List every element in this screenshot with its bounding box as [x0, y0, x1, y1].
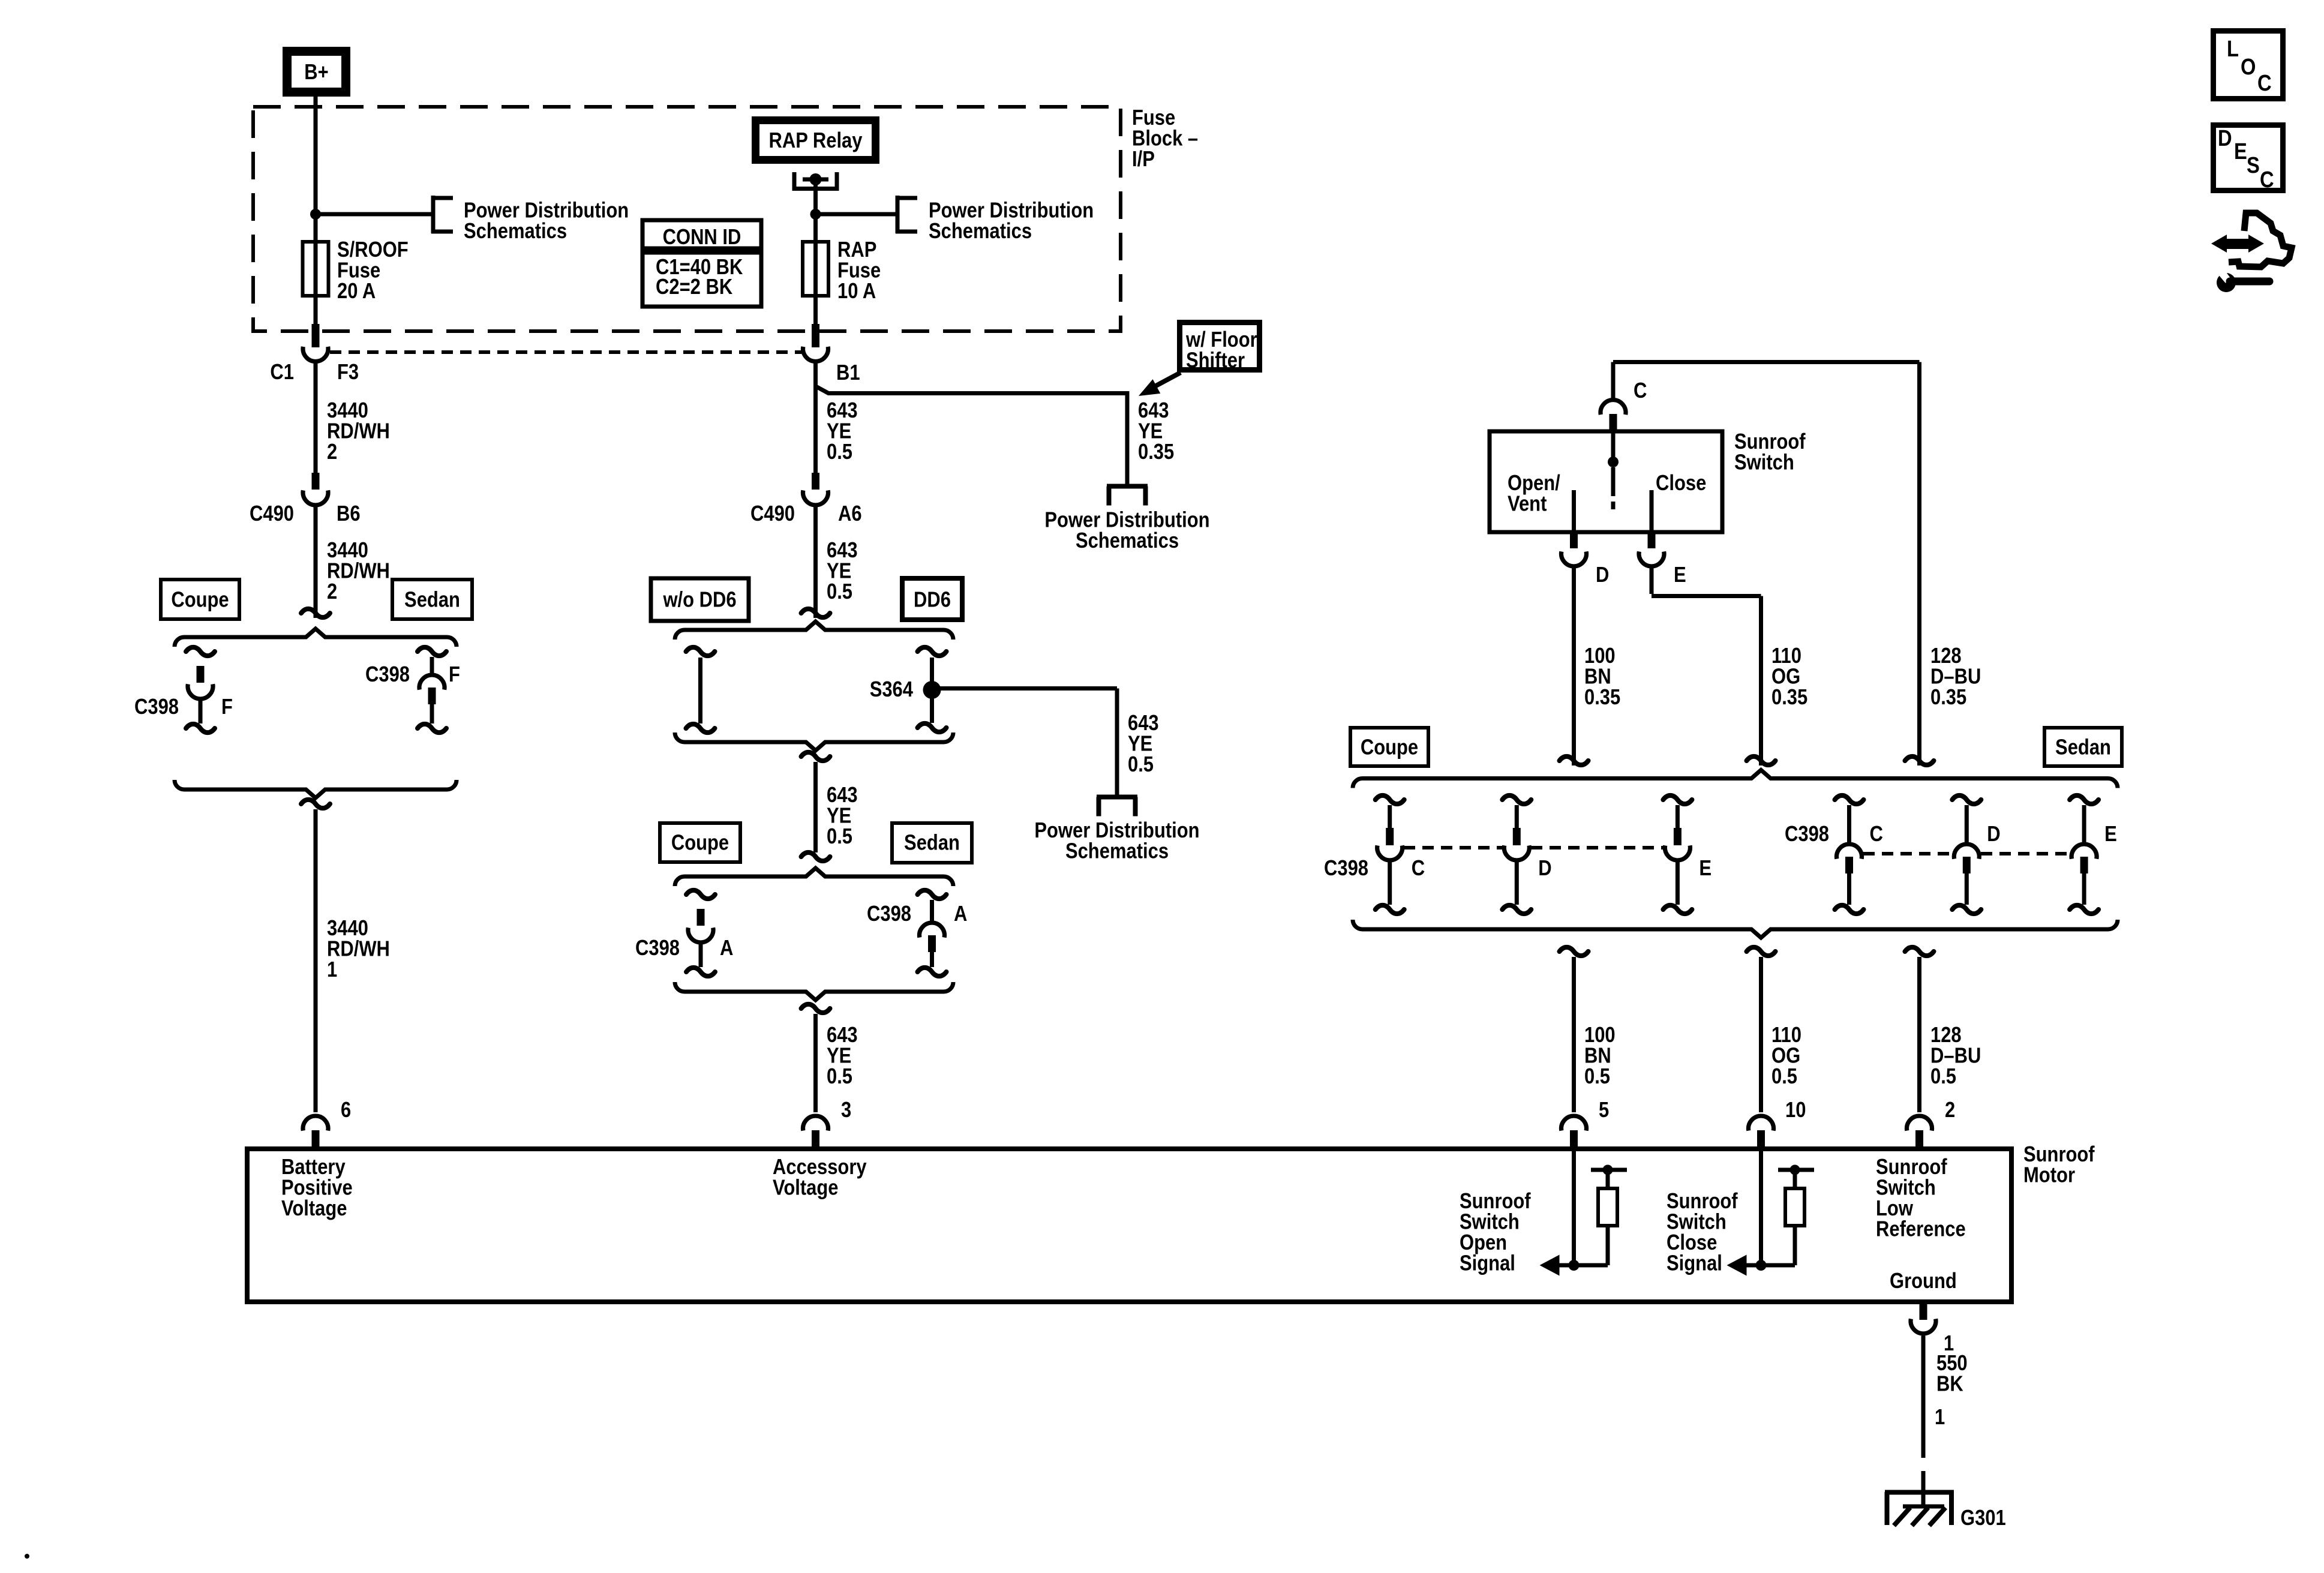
- svg-text:C490: C490: [250, 501, 294, 526]
- wire 643 YE 0.5 to motor pin 3: [813, 1014, 818, 1112]
- svg-text:Motor: Motor: [2023, 1163, 2075, 1187]
- switch pin D: [1570, 530, 1578, 548]
- merge brace coupe/sedan (right): [1353, 920, 2118, 938]
- svg-text:C398: C398: [365, 662, 410, 686]
- svg-text:C: C: [2257, 71, 2272, 96]
- svg-text:3: 3: [841, 1097, 851, 1122]
- icon DESC box: [2214, 125, 2283, 191]
- svg-text:A: A: [720, 935, 733, 960]
- split brace coupe/sedan (left): [175, 629, 457, 647]
- power distribution tap symbol (RAP): [896, 196, 900, 233]
- svg-text:F: F: [449, 662, 460, 686]
- connector C398 pin C (coupe): [1376, 795, 1404, 804]
- option box Sedan (left): [392, 580, 472, 619]
- svg-text:Voltage: Voltage: [773, 1175, 839, 1200]
- svg-text:Ground: Ground: [1890, 1268, 1957, 1293]
- svg-text:F: F: [221, 694, 233, 719]
- svg-text:CONN ID: CONN ID: [663, 224, 741, 249]
- resistor open signal: [1598, 1188, 1617, 1226]
- wire wave before split: [301, 609, 330, 617]
- connector C398 pin C (sedan): [1835, 795, 1864, 804]
- svg-text:1: 1: [1935, 1404, 1945, 1429]
- svg-text:E: E: [1674, 562, 1686, 587]
- svg-text:Schematics: Schematics: [929, 218, 1032, 243]
- svg-text:w/o DD6: w/o DD6: [663, 587, 737, 612]
- wire 128 D-BU 0.5 to motor pin 2: [1917, 957, 1921, 1112]
- dashed link sedan connectors: [1863, 852, 1953, 855]
- merge brace DD6: [675, 733, 953, 751]
- wire tap to power distribution (RAP): [816, 212, 896, 217]
- svg-text:B1: B1: [836, 360, 860, 385]
- svg-text:C: C: [2260, 167, 2274, 193]
- svg-text:Coupe: Coupe: [1361, 735, 1418, 760]
- connector C1 pin F3: [312, 324, 320, 347]
- relay RAP Relay box: [752, 116, 879, 164]
- wire 643 YE 0.5 to coupe/sedan split: [813, 762, 818, 852]
- svg-text:10 A: 10 A: [837, 278, 876, 303]
- node junction RAP feed: [810, 209, 821, 220]
- connector C398 pin D (coupe): [1502, 795, 1531, 804]
- wire branch to floor shifter circuit: [815, 386, 1127, 486]
- wire B+ down to S/ROOF fuse: [314, 97, 318, 324]
- svg-text:L: L: [2227, 37, 2239, 62]
- svg-text:RAP Relay: RAP Relay: [769, 128, 863, 152]
- svg-text:Schematics: Schematics: [1065, 839, 1169, 863]
- svg-text:B+: B+: [304, 59, 328, 84]
- option box Coupe (right): [1350, 728, 1428, 766]
- svg-text:0.5: 0.5: [827, 824, 852, 848]
- motor internal open signal circuit: [1572, 1149, 1576, 1265]
- svg-text:Sedan: Sedan: [404, 587, 460, 612]
- connector C1 pin B1: [812, 324, 819, 347]
- dashed link coupe connectors: [1404, 846, 1503, 849]
- svg-text:F3: F3: [337, 359, 359, 384]
- svg-text:Vent: Vent: [1508, 491, 1547, 516]
- wire switch common: [1611, 431, 1616, 458]
- svg-text:O: O: [2241, 55, 2256, 80]
- svg-text:C398: C398: [1785, 821, 1829, 846]
- svg-text:D: D: [1987, 821, 2000, 846]
- svg-text:BK: BK: [1936, 1371, 1963, 1396]
- icon LOC box: [2214, 31, 2283, 99]
- fuse block dashed outline: [253, 107, 1121, 331]
- split brace coupe/sedan (right): [1353, 770, 2118, 788]
- connector C398 pin A (sedan branch): [918, 890, 947, 899]
- svg-text:E: E: [1699, 855, 1712, 880]
- relay RAP output pin symbol: [792, 172, 797, 187]
- svg-text:0.5: 0.5: [1771, 1064, 1797, 1088]
- svg-text:Schematics: Schematics: [464, 218, 567, 243]
- svg-text:G301: G301: [1960, 1505, 2006, 1530]
- svg-text:2: 2: [327, 579, 337, 604]
- svg-text:Coupe: Coupe: [171, 587, 229, 612]
- connector C398 pin E (sedan): [2070, 795, 2098, 804]
- power distribution tap symbol (S364): [1097, 795, 1137, 800]
- stray period mark bottom-left: [25, 1554, 29, 1559]
- svg-text:I/P: I/P: [1132, 146, 1155, 171]
- svg-text:D: D: [2218, 126, 2232, 151]
- svg-text:C2=2 BK: C2=2 BK: [656, 274, 732, 299]
- sunroof switch box: [1490, 431, 1722, 532]
- wire sunroof switch feed (top): [1613, 362, 1920, 766]
- svg-text:Reference: Reference: [1876, 1217, 1966, 1241]
- connector C490 pin B6: [312, 473, 320, 490]
- wire 550 BK to G301: [1921, 1336, 1926, 1434]
- callout box w/ Floor Shifter: [1177, 320, 1262, 373]
- svg-text:0.5: 0.5: [1128, 752, 1154, 776]
- switch pin E: [1648, 530, 1656, 548]
- option box Sedan (middle): [892, 823, 972, 863]
- svg-text:0.5: 0.5: [827, 579, 852, 604]
- svg-text:A6: A6: [838, 501, 862, 526]
- svg-text:C398: C398: [867, 901, 911, 926]
- svg-text:Voltage: Voltage: [281, 1196, 347, 1220]
- svg-text:C398: C398: [134, 694, 179, 719]
- split brace coupe/sedan (middle): [675, 868, 953, 886]
- connector C398 pin F (sedan branch): [418, 647, 446, 656]
- svg-text:D: D: [1538, 855, 1551, 880]
- svg-text:C398: C398: [1324, 855, 1368, 880]
- svg-text:0.35: 0.35: [1584, 685, 1620, 709]
- svg-text:E: E: [2234, 139, 2247, 164]
- svg-text:Coupe: Coupe: [671, 830, 729, 855]
- svg-text:E: E: [2104, 821, 2117, 846]
- svg-text:Signal: Signal: [1460, 1251, 1515, 1275]
- fuse RAP 10A: [803, 242, 828, 296]
- option box Coupe (left): [161, 580, 239, 619]
- wire 643 YE 0.5 to DD6 split: [813, 507, 818, 618]
- wire 110 OG 0.35 from pin E: [1652, 568, 1761, 766]
- wire DD6 branch with splice: [918, 647, 947, 656]
- wire 110 OG 0.5 to motor pin 10: [1759, 957, 1763, 1112]
- wire w/o DD6 branch: [686, 647, 715, 656]
- switch pin C: [1601, 400, 1626, 415]
- svg-text:20 A: 20 A: [337, 278, 376, 303]
- svg-text:5: 5: [1599, 1097, 1609, 1122]
- switch contact open/vent: [1572, 490, 1576, 530]
- motor pin 3: [803, 1116, 828, 1131]
- svg-text:C398: C398: [635, 935, 680, 960]
- connector C398 pin E (coupe): [1663, 795, 1692, 804]
- node switch common: [1608, 457, 1619, 467]
- svg-text:B6: B6: [337, 501, 361, 526]
- svg-text:Switch: Switch: [1734, 450, 1794, 475]
- wire 3440 RD/WH 1 to sunroof motor pin 6: [314, 809, 318, 1112]
- svg-text:0.5: 0.5: [827, 1064, 852, 1088]
- wire S364 to power distribution: [932, 689, 1118, 797]
- ground G301 symbol: [1885, 1490, 1954, 1495]
- svg-text:C: C: [1634, 378, 1647, 403]
- svg-text:C490: C490: [750, 501, 795, 526]
- svg-text:C: C: [1870, 821, 1883, 846]
- node B+ battery feed box: [283, 47, 350, 97]
- svg-text:A: A: [954, 901, 967, 926]
- svg-text:0.35: 0.35: [1930, 685, 1966, 709]
- svg-text:S364: S364: [870, 677, 913, 701]
- splice S364: [923, 681, 941, 699]
- svg-text:C: C: [1412, 855, 1425, 880]
- option box w/o DD6: [651, 578, 749, 621]
- svg-text:C1: C1: [270, 359, 294, 384]
- connector C398 pin A (coupe branch): [686, 890, 715, 899]
- svg-text:Close: Close: [1656, 470, 1706, 495]
- sunroof motor box: [247, 1149, 2011, 1302]
- fuse S/ROOF 20A: [303, 242, 329, 296]
- motor pin 10: [1748, 1116, 1773, 1131]
- svg-text:0.35: 0.35: [1771, 685, 1807, 709]
- switch lever: [1611, 467, 1616, 496]
- connector C398 pin D (sedan): [1952, 795, 1981, 804]
- option box Sedan (right): [2044, 728, 2122, 766]
- power distribution tap symbol (floor shifter): [1107, 484, 1148, 489]
- wire 3440 RD/WH 2 (lower): [314, 507, 318, 618]
- option box DD6: [902, 578, 962, 620]
- svg-text:1: 1: [327, 957, 337, 981]
- wire 100 BN 0.5 to motor pin 5: [1572, 957, 1576, 1112]
- wire tap to power distribution: [316, 212, 431, 217]
- svg-text:D: D: [1596, 562, 1609, 587]
- switch contact close: [1650, 490, 1654, 530]
- motor pin 2: [1907, 1116, 1932, 1131]
- split brace DD6: [675, 622, 953, 640]
- connector row dotted line C1-B1: [330, 350, 801, 354]
- merge brace (left): [175, 780, 457, 798]
- icon component location arrow: [2224, 239, 2251, 249]
- arrow from floor shifter callout: [1156, 373, 1181, 386]
- svg-text:Sedan: Sedan: [2055, 735, 2111, 760]
- svg-text:S: S: [2247, 153, 2260, 178]
- svg-text:6: 6: [341, 1097, 351, 1122]
- svg-text:2: 2: [1945, 1097, 1955, 1122]
- svg-text:0.35: 0.35: [1138, 439, 1174, 464]
- motor pin 1 ground: [1920, 1302, 1927, 1320]
- wire waves before coupe/sedan split (right): [1560, 757, 1589, 765]
- svg-text:Schematics: Schematics: [1076, 528, 1179, 553]
- svg-text:DD6: DD6: [914, 587, 951, 612]
- svg-text:Shifter: Shifter: [1186, 348, 1245, 373]
- wire 100 BN 0.35 from pin D: [1572, 568, 1576, 766]
- svg-text:Sedan: Sedan: [904, 830, 960, 855]
- motor pin 6: [303, 1116, 328, 1131]
- svg-text:0.5: 0.5: [827, 439, 852, 464]
- connector C490 pin A6: [812, 473, 819, 490]
- option box Coupe (middle): [660, 823, 740, 862]
- power distribution tap symbol (left): [431, 196, 436, 233]
- motor internal close signal circuit: [1759, 1149, 1763, 1265]
- svg-text:10: 10: [1785, 1097, 1806, 1122]
- resistor close signal: [1785, 1188, 1804, 1226]
- icon wrench: [2217, 273, 2236, 292]
- wire B1 down: [813, 363, 818, 473]
- svg-text:Signal: Signal: [1667, 1251, 1722, 1275]
- svg-text:2: 2: [327, 439, 337, 464]
- merge brace coupe/sedan (middle): [675, 982, 953, 1000]
- icon component outline: [2229, 213, 2292, 267]
- connector C398 pin F (coupe branch): [186, 647, 215, 656]
- node junction on B+ feed: [310, 209, 321, 220]
- svg-text:0.5: 0.5: [1930, 1064, 1956, 1088]
- table CONN ID: [642, 220, 761, 248]
- svg-text:0.5: 0.5: [1584, 1064, 1610, 1088]
- motor pin 5: [1562, 1116, 1587, 1131]
- wire 3440 RD/WH 2 (upper): [314, 363, 318, 473]
- wire RAP relay to fuse: [813, 179, 818, 324]
